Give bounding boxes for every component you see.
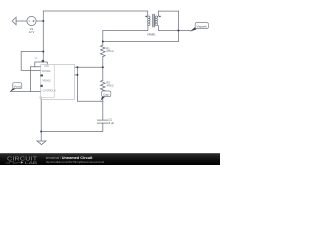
svg-text:476 Ω: 476 Ω [107, 83, 114, 87]
svg-text:THRESHOLD: THRESHOLD [42, 80, 51, 82]
svg-text:http://circuitlab.com/c/9hc75b: http://circuitlab.com/c/9hc75bmjd8sw/unn… [46, 160, 105, 164]
svg-text:DISCHARGE: DISCHARGE [42, 70, 51, 73]
svg-text:VCC: VCC [44, 66, 49, 68]
svg-text:Cap: Cap [103, 92, 109, 96]
svg-text:Vout: Vout [14, 84, 21, 88]
svg-text:Vspark: Vspark [196, 24, 207, 28]
svg-text:XFMR1: XFMR1 [147, 34, 156, 37]
svg-text:C1: C1 [109, 117, 113, 121]
svg-text:LAB: LAB [25, 161, 38, 165]
svg-text:5 µF: 5 µF [109, 121, 115, 125]
svg-text:476 Ω: 476 Ω [106, 49, 113, 53]
svg-text:12 V: 12 V [29, 30, 35, 34]
